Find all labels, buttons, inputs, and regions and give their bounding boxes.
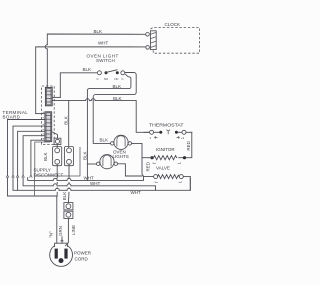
wire BLK rail branch to F2 <box>68 101 70 148</box>
terminal board dashed box <box>42 86 55 145</box>
wire SQ3 to plug L1 <box>65 219 68 246</box>
wire lamp1 right to valve feed <box>132 143 143 157</box>
wire rail r4 <box>23 178 53 186</box>
svg-text:VALVE: VALVE <box>156 165 170 170</box>
ignitor R1 <box>142 156 186 160</box>
svg-text:LIGHTS: LIGHTS <box>113 154 129 159</box>
svg-text:CORD: CORD <box>75 256 89 261</box>
inline connector SQ2 <box>64 203 73 210</box>
connector chevrons <box>6 175 32 178</box>
wire F1 down to GRN <box>56 164 58 178</box>
wire F2 down LINE <box>68 164 70 178</box>
svg-text:BLK: BLK <box>113 84 122 89</box>
svg-text:C: C <box>97 77 99 81</box>
svg-text:BLK: BLK <box>100 138 109 143</box>
svg-text:IGNITOR: IGNITOR <box>156 147 175 152</box>
inline connector SQ1 <box>54 138 61 144</box>
ignitor pin marks <box>153 162 181 163</box>
wire thermostat 2 down <box>186 132 192 157</box>
wire strip left entry 4 <box>23 136 45 175</box>
svg-text:BLK: BLK <box>83 67 92 72</box>
switch S1 terminal <box>97 71 101 75</box>
svg-text:RED: RED <box>145 161 150 171</box>
svg-text:DISCONNECT: DISCONNECT <box>34 172 64 177</box>
thermostat TS1 <box>144 130 192 135</box>
wire switch feed <box>60 73 97 98</box>
svg-text:BOARD: BOARD <box>3 115 21 120</box>
wire strip left entry 2 <box>13 126 45 175</box>
wire strip left entry 3 <box>18 131 45 174</box>
supply disconnect box <box>35 142 80 176</box>
valve pin marks <box>155 181 182 182</box>
wire upper strip out <box>52 96 60 98</box>
svg-text:GRN: GRN <box>58 226 63 236</box>
wire switch out B (inner loop to lamp return) <box>87 74 130 180</box>
svg-text:RED: RED <box>186 140 191 150</box>
oven lamp 2 <box>97 155 118 169</box>
svg-text:+2: +2 <box>181 136 185 140</box>
wire lamp2 right down <box>118 164 143 176</box>
switch contact dot <box>105 71 108 74</box>
wire WHT rail <box>36 47 146 114</box>
wire supply box edge down <box>33 176 35 196</box>
clock box <box>151 27 200 53</box>
svg-text:BLK: BLK <box>113 96 122 101</box>
wire rail r2 <box>13 178 17 191</box>
fuse block F1 <box>53 147 62 166</box>
switch terminal <box>121 71 125 75</box>
svg-text:CLOCK: CLOCK <box>165 22 181 27</box>
svg-text:WHT: WHT <box>98 41 108 46</box>
switch contact dot <box>116 71 119 74</box>
svg-text:LINE: LINE <box>71 225 76 235</box>
svg-text:BLK: BLK <box>62 192 67 201</box>
clock terminal 1 <box>146 33 150 37</box>
svg-text:THERMOSTAT: THERMOSTAT <box>149 123 184 128</box>
switch blade <box>106 70 117 73</box>
valve V1 <box>154 175 191 191</box>
hop of BLK vertical over WHT rail <box>45 45 47 49</box>
svg-text:BLK: BLK <box>43 152 48 161</box>
svg-text:BLK: BLK <box>64 116 69 125</box>
wire rail r1 WHT <box>8 178 57 196</box>
svg-text:WHT: WHT <box>131 190 141 195</box>
wire lamp1 feed <box>93 141 110 143</box>
wire SQ1 to F1 <box>56 145 58 148</box>
svg-text:NC: NC <box>115 77 119 81</box>
wire lamp loop down <box>142 158 144 177</box>
clock connector P1 <box>150 31 156 50</box>
svg-text:POWER: POWER <box>74 251 92 256</box>
wire BLK rail to thermostat <box>52 100 85 102</box>
wire BLK top rail <box>46 49 48 87</box>
power cord plug <box>50 243 73 266</box>
wire WHT into strip top <box>36 113 45 115</box>
oven lamp 1 <box>111 135 132 149</box>
svg-text:WHT: WHT <box>84 175 94 180</box>
strip pin marks <box>43 112 44 138</box>
svg-text:BLK: BLK <box>94 29 103 34</box>
wire strip to SQ1 <box>52 132 58 139</box>
wire strip left entry 1 <box>8 120 45 175</box>
wire lamp2 left <box>87 163 96 165</box>
svg-text:“N”: “N” <box>49 231 54 238</box>
wire strip left entry 5 <box>31 140 45 174</box>
clock terminal 2 <box>146 46 150 50</box>
terminal strip upper <box>45 87 52 105</box>
inline connector SQ3 <box>64 211 73 218</box>
wire GRN stub <box>61 237 63 243</box>
wire rail r5 WHT to lamp box <box>28 178 54 181</box>
wire rail r3 WHT long <box>18 178 56 191</box>
terminal strip lower <box>45 112 52 142</box>
svg-text:C: C <box>122 77 124 81</box>
svg-text:WHT: WHT <box>90 181 100 186</box>
fuse block F2 <box>64 147 73 166</box>
wire switch out A (outer loop to lamp1 feed) <box>93 73 136 142</box>
svg-text:BLK: BLK <box>82 151 87 160</box>
svg-text:SWITCH: SWITCH <box>96 58 115 63</box>
